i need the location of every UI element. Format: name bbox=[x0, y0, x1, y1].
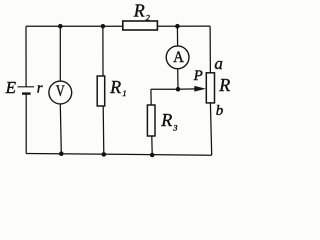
wire top right bbox=[157, 25, 210, 27]
svg-text:r: r bbox=[37, 80, 43, 96]
junction dot top ammeter node bbox=[175, 24, 180, 29]
wire middle horizontal to wiper bbox=[151, 88, 196, 90]
rheostat R box bbox=[206, 73, 214, 103]
svg-text:a: a bbox=[214, 54, 223, 73]
wire R1 top lead bbox=[102, 26, 104, 76]
svg-text:A: A bbox=[173, 49, 184, 66]
wire left frame upper bbox=[25, 26, 27, 87]
wire ammeter top lead bbox=[176, 26, 178, 46]
junction dot bottom R3 node bbox=[150, 153, 155, 158]
wire left frame lower bbox=[25, 94, 27, 154]
junction dot top voltmeter node bbox=[58, 24, 63, 29]
svg-text:E: E bbox=[5, 78, 17, 97]
wire voltmeter bottom lead bbox=[60, 104, 61, 154]
ammeter U-A circle bbox=[166, 46, 189, 69]
resistor R3 box bbox=[147, 105, 155, 136]
svg-text:P: P bbox=[193, 68, 203, 84]
wire R3 top lead bbox=[150, 89, 152, 105]
resistor R1 box bbox=[97, 76, 105, 106]
wire right side upper bbox=[209, 26, 211, 73]
battery E plate long bbox=[18, 86, 35, 88]
wire R1 bottom lead bbox=[102, 106, 105, 154]
wire right side lower bbox=[210, 103, 211, 155]
resistor R2 box bbox=[123, 21, 158, 30]
svg-text:R: R bbox=[218, 75, 230, 95]
junction dot bottom voltmeter node bbox=[59, 151, 64, 156]
wire top left bbox=[26, 25, 123, 27]
junction dot top R1 node bbox=[101, 24, 106, 29]
voltmeter U-V circle bbox=[49, 81, 72, 104]
junction dot bottom R1 node bbox=[102, 152, 107, 157]
wire bottom bbox=[26, 154, 212, 156]
wire voltmeter top lead bbox=[59, 26, 61, 81]
svg-text:b: b bbox=[216, 103, 224, 119]
wire ammeter bottom lead bbox=[177, 69, 179, 90]
battery E plate short thick bbox=[22, 92, 31, 94]
wiper arrow head P bbox=[194, 86, 206, 92]
wire R3 bottom lead bbox=[151, 136, 153, 155]
svg-text:V: V bbox=[56, 83, 65, 100]
junction dot mid ammeter-wiper node bbox=[176, 87, 181, 92]
